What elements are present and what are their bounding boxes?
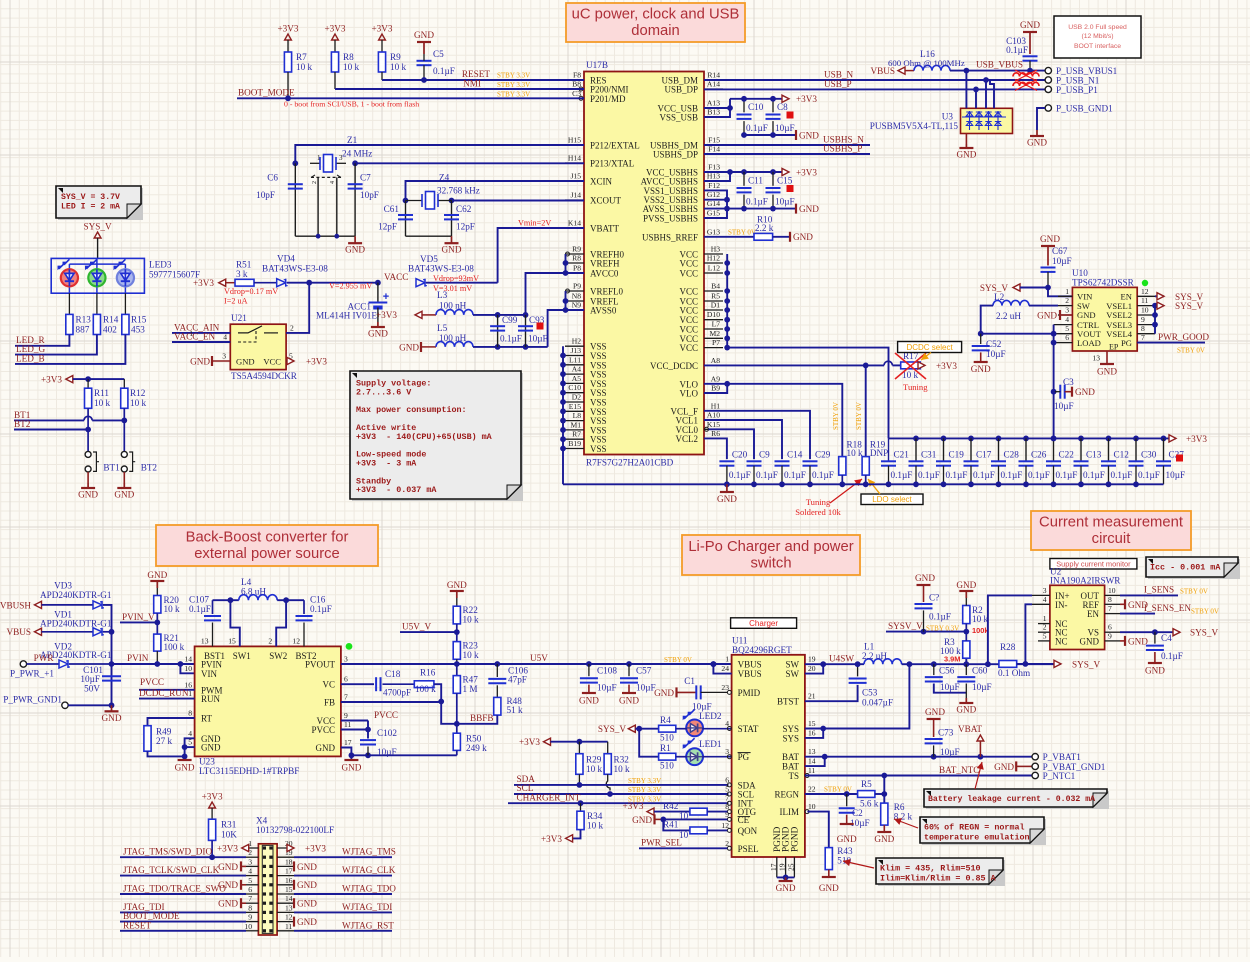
supply +3V3 rail arrow	[1169, 435, 1176, 442]
svg-text:C67: C67	[1052, 246, 1068, 256]
capacitor C102	[367, 730, 369, 739]
svg-text:GND: GND	[399, 342, 419, 352]
wire R34 to +3V3	[573, 830, 581, 839]
svg-text:F15: F15	[708, 136, 720, 145]
wire R48 to BBFB	[457, 715, 498, 724]
svg-text:SW1: SW1	[233, 651, 251, 661]
svg-text:14: 14	[184, 655, 192, 664]
title uC power clock and USB domain	[566, 3, 745, 42]
svg-text:11: 11	[1141, 296, 1149, 305]
svg-text:R9: R9	[572, 245, 581, 254]
capacitor C14	[775, 460, 790, 462]
wire EN SYS_V	[1155, 295, 1164, 297]
svg-text:0.1µF: 0.1µF	[1111, 470, 1133, 480]
inductor L1	[864, 659, 902, 664]
pin B8 P200/NMI	[565, 88, 584, 90]
svg-text:BAT43WS-E3-08: BAT43WS-E3-08	[262, 264, 328, 274]
svg-text:F8: F8	[573, 71, 581, 80]
svg-text:EP: EP	[1109, 343, 1119, 352]
svg-text:STBY 3.3V: STBY 3.3V	[628, 777, 661, 785]
ic U23 LTC3115EDHD	[195, 646, 341, 756]
svg-text:C29: C29	[815, 450, 831, 460]
wire EXTAL net	[295, 145, 584, 163]
wire gnd rail R50 C102	[351, 754, 456, 756]
pin L8 VSS	[565, 420, 584, 422]
wire U21 pin2 to VACC	[286, 283, 309, 333]
erc marker C8	[787, 112, 794, 119]
svg-text:2: 2	[312, 181, 318, 184]
svg-text:I=2 uA: I=2 uA	[224, 297, 248, 306]
svg-text:H15: H15	[568, 136, 581, 145]
svg-text:GND: GND	[915, 573, 935, 583]
wire R1 branch	[639, 729, 658, 757]
svg-text:C12: C12	[1114, 450, 1130, 460]
svg-text:PVCC: PVCC	[311, 725, 335, 735]
svg-text:U10: U10	[1072, 268, 1088, 278]
svg-text:GND: GND	[837, 834, 857, 844]
svg-text:100 nH: 100 nH	[439, 333, 467, 343]
svg-text:24: 24	[721, 664, 729, 673]
gnd EP pin13	[1106, 351, 1108, 364]
pin B19 VSS	[565, 448, 584, 450]
capacitor C10	[743, 99, 745, 113]
erc marker C15	[787, 185, 794, 192]
gnd C5	[423, 42, 425, 54]
gnd R6	[877, 831, 891, 833]
svg-text:LED3: LED3	[149, 260, 172, 270]
capacitor C29	[803, 460, 818, 462]
svg-text:2: 2	[1043, 623, 1047, 632]
svg-text:TS5A4594DCKR: TS5A4594DCKR	[231, 371, 298, 381]
svg-text:L12: L12	[708, 264, 720, 273]
svg-text:10 k: 10 k	[463, 615, 479, 625]
svg-text:C52: C52	[986, 339, 1002, 349]
ic U3 PUSBM5V5X4 TVS array	[961, 108, 1013, 133]
svg-text:STBY 3.3V: STBY 3.3V	[628, 786, 661, 794]
svg-text:10: 10	[808, 802, 816, 811]
svg-text:R22: R22	[463, 605, 479, 615]
svg-text:GND: GND	[442, 245, 462, 255]
svg-text:PVCC: PVCC	[140, 677, 164, 687]
svg-text:C30: C30	[1141, 450, 1157, 460]
svg-text:VBUS: VBUS	[738, 669, 762, 679]
svg-text:10 k: 10 k	[614, 764, 630, 774]
resistor R34	[580, 803, 582, 811]
title Li-Po Charger and power switch	[682, 535, 860, 575]
svg-text:17: 17	[285, 867, 293, 876]
resistor R15	[124, 293, 126, 314]
resistor R16	[414, 681, 434, 688]
svg-text:A13: A13	[707, 99, 720, 108]
capacitor C93	[525, 315, 527, 347]
svg-text:C6: C6	[267, 173, 278, 183]
svg-text:10µF: 10µF	[775, 197, 795, 207]
svg-text:GND: GND	[201, 743, 221, 753]
svg-text:SW: SW	[786, 669, 800, 679]
supply +3V3 R17 arrow	[918, 362, 925, 369]
pin R5 VCC	[704, 300, 723, 302]
svg-text:P_PWR_+1: P_PWR_+1	[10, 668, 54, 678]
led LED3 red element	[61, 269, 78, 286]
pin G13 USBHS_RREF	[704, 236, 723, 238]
svg-text:+3V3: +3V3	[305, 843, 326, 853]
svg-text:P213/XTAL: P213/XTAL	[590, 159, 634, 169]
pin C10 VSS	[565, 392, 584, 394]
svg-text:6: 6	[344, 675, 348, 684]
svg-text:10 k: 10 k	[586, 764, 602, 774]
svg-text:QON: QON	[738, 826, 758, 836]
port SYS_V after shunt	[1054, 660, 1061, 667]
svg-text:VBAT: VBAT	[958, 724, 982, 734]
svg-text:XCOUT: XCOUT	[590, 196, 622, 206]
svg-text:12pF: 12pF	[378, 222, 397, 232]
svg-text:7: 7	[248, 894, 252, 903]
svg-text:4: 4	[188, 729, 192, 738]
pin H15 P212/EXTAL	[565, 144, 584, 146]
capacitor C57	[628, 664, 630, 676]
pin P7 VCC	[704, 347, 723, 349]
wire U5V rail	[341, 663, 732, 665]
svg-text:5.6 k: 5.6 k	[860, 799, 879, 809]
svg-text:510: 510	[660, 733, 674, 743]
note 60% REGN box	[922, 819, 1046, 845]
svg-text:PSEL: PSEL	[738, 844, 759, 854]
resistor R14	[96, 293, 98, 314]
svg-text:VCC: VCC	[679, 269, 698, 279]
svg-text:+3V3 - 3 mA: +3V3 - 3 mA	[356, 459, 417, 469]
svg-text:10pF: 10pF	[360, 190, 379, 200]
svg-text:0.1µF: 0.1µF	[918, 470, 940, 480]
svg-text:TS: TS	[788, 771, 799, 781]
gnd R22	[456, 591, 458, 598]
pin R9 VREFH0	[565, 253, 584, 255]
svg-text:C2: C2	[852, 808, 863, 818]
svg-text:GND: GND	[956, 705, 976, 715]
svg-text:GND: GND	[1097, 367, 1117, 377]
svg-text:temperature emulation: temperature emulation	[924, 832, 1030, 842]
svg-text:10µF: 10µF	[597, 683, 617, 693]
pin M2 VCC	[704, 337, 723, 339]
svg-text:P_VBAT1: P_VBAT1	[1043, 752, 1082, 762]
capacitor C52	[980, 334, 982, 344]
svg-text:13: 13	[1092, 354, 1100, 363]
pin A9 VLO	[704, 383, 723, 385]
wire SYS net	[805, 664, 910, 728]
svg-text:C108: C108	[597, 666, 617, 676]
svg-text:0.1µF: 0.1µF	[189, 604, 211, 614]
erc marker C27	[1176, 455, 1183, 462]
svg-text:10µF: 10µF	[940, 747, 960, 757]
svg-text:AVSS0: AVSS0	[590, 306, 617, 316]
pin D1 VCC	[704, 309, 723, 311]
svg-text:27 k: 27 k	[156, 736, 172, 746]
svg-text:0.1µF: 0.1µF	[891, 470, 913, 480]
pin U10 4 CTRL	[1054, 324, 1073, 326]
svg-text:C57: C57	[636, 666, 652, 676]
svg-text:C5: C5	[433, 49, 444, 59]
svg-text:10: 10	[1141, 306, 1149, 315]
svg-text:10: 10	[184, 664, 192, 673]
svg-text:STBY 3.3V: STBY 3.3V	[497, 72, 530, 80]
resistor R12	[123, 379, 125, 388]
wire VCC to 3V3 rail	[727, 348, 888, 439]
svg-text:GND: GND	[971, 364, 991, 374]
svg-text:USB 2.0 Full speed: USB 2.0 Full speed	[1068, 24, 1127, 31]
svg-text:K15: K15	[707, 420, 720, 429]
pin G12 VSS2_USBHS	[704, 199, 723, 201]
svg-text:STBY 3.3V: STBY 3.3V	[497, 90, 530, 98]
wire BOOT_MODE net	[237, 97, 584, 99]
svg-text:R9: R9	[390, 52, 401, 62]
resistor R1	[659, 753, 676, 760]
svg-text:R8: R8	[572, 254, 581, 263]
pin X4 9 and 12	[246, 921, 258, 923]
svg-text:USBHS_RREF: USBHS_RREF	[642, 232, 698, 242]
svg-text:VC: VC	[322, 680, 335, 690]
svg-text:D10: D10	[707, 310, 720, 319]
svg-text:U21: U21	[231, 313, 247, 323]
wire VBATT net	[498, 228, 584, 283]
gnd P_USB_GND1	[1036, 130, 1038, 136]
svg-text:SYS_V: SYS_V	[1072, 659, 1100, 669]
svg-text:+: +	[383, 291, 389, 303]
pin U2 8 REF	[1105, 603, 1120, 605]
svg-text:C21: C21	[894, 450, 910, 460]
svg-text:R43: R43	[837, 846, 853, 856]
resistor R23	[453, 642, 460, 660]
capacitor C53	[857, 664, 859, 676]
svg-text:C102: C102	[377, 728, 397, 738]
svg-text:USBHS_P: USBHS_P	[823, 144, 862, 154]
capacitor C9	[747, 460, 762, 462]
ic U11 BQ24296RGET	[732, 655, 805, 857]
pin M1 VSS	[565, 429, 584, 431]
svg-text:+3V3: +3V3	[796, 168, 817, 178]
svg-text:GND: GND	[1037, 311, 1057, 321]
svg-text:R32: R32	[614, 755, 630, 765]
pin U10 8 VSEL4	[1137, 333, 1155, 335]
svg-text:+3V3: +3V3	[202, 792, 223, 802]
svg-text:R49: R49	[156, 727, 172, 737]
wire RESET net	[382, 79, 584, 81]
gnd ACC1	[377, 308, 379, 323]
wire USB_P net	[704, 88, 1048, 90]
pin F13 VCC_USBHS	[704, 171, 723, 173]
svg-text:INA190A2IRSWR: INA190A2IRSWR	[1050, 576, 1121, 586]
svg-text:9: 9	[344, 711, 348, 720]
svg-text:GND: GND	[297, 917, 317, 927]
svg-text:STBY 3.3V: STBY 3.3V	[497, 81, 530, 89]
gnd BT1	[87, 483, 89, 488]
svg-text:ILIM: ILIM	[780, 807, 800, 817]
svg-text:P9: P9	[573, 282, 581, 291]
svg-text:C22: C22	[1059, 450, 1075, 460]
resistor R20	[156, 588, 158, 596]
capacitor C26	[1023, 436, 1029, 442]
svg-text:RESET: RESET	[462, 69, 490, 79]
erc marker C93	[537, 323, 544, 330]
svg-text:Vdrop=0.17 mV: Vdrop=0.17 mV	[224, 287, 278, 296]
svg-text:U3: U3	[942, 112, 954, 122]
svg-text:R50: R50	[466, 734, 482, 744]
wire RT to R49	[148, 718, 195, 726]
wire VCC_USB to +3V3	[704, 99, 730, 108]
svg-text:+3V3: +3V3	[936, 361, 957, 371]
svg-text:C3: C3	[1063, 377, 1074, 387]
svg-text:switch: switch	[750, 556, 791, 572]
svg-text:uC power, clock and USB: uC power, clock and USB	[572, 7, 740, 23]
svg-text:5977715607F: 5977715607F	[149, 270, 200, 280]
wire XCOUT net	[452, 200, 585, 202]
svg-text:GND: GND	[619, 695, 639, 705]
node VACC	[375, 280, 381, 286]
resistor R32	[607, 742, 609, 754]
svg-text:J13: J13	[570, 346, 581, 355]
svg-text:STBY 0V: STBY 0V	[1191, 607, 1219, 615]
svg-text:IN-: IN-	[1055, 600, 1068, 610]
svg-text:GND: GND	[717, 494, 737, 504]
svg-text:GND: GND	[447, 580, 467, 590]
wire AVSS rail	[473, 346, 548, 348]
wire VS SYS_V	[1120, 631, 1180, 633]
pin N8 VREFL	[565, 300, 584, 302]
svg-text:0.1µF: 0.1µF	[433, 66, 455, 76]
svg-text:STBY 0V: STBY 0V	[824, 785, 852, 793]
svg-text:10 k: 10 k	[343, 62, 359, 72]
svg-text:10µF: 10µF	[1052, 256, 1072, 266]
resistor R6	[881, 803, 888, 825]
svg-text:C62: C62	[456, 204, 472, 214]
svg-text:0.1µF: 0.1µF	[746, 197, 768, 207]
wire VLO B9 net	[704, 384, 727, 393]
pin K15 VCL0	[704, 428, 723, 430]
svg-text:B9: B9	[711, 384, 720, 393]
port P_USB_N1	[1045, 77, 1051, 83]
gnd C2	[840, 823, 854, 825]
capacitor C?	[915, 603, 933, 605]
svg-text:GND: GND	[190, 357, 210, 367]
svg-text:VCL2: VCL2	[676, 434, 699, 444]
svg-text:0.1µF: 0.1µF	[1028, 470, 1050, 480]
title Back-Boost converter	[156, 525, 378, 566]
svg-text:6: 6	[248, 885, 252, 894]
resistor R11	[87, 379, 89, 388]
supply SYS_V LED3	[94, 232, 101, 238]
gnd C108	[582, 692, 596, 694]
svg-text:GND: GND	[236, 357, 255, 367]
svg-text:C20: C20	[732, 450, 748, 460]
port P_PWR_GND1	[62, 702, 68, 708]
svg-text:Charger: Charger	[749, 619, 778, 628]
svg-text:R8: R8	[343, 52, 354, 62]
svg-text:J15: J15	[570, 172, 581, 181]
wire to VIN	[1048, 288, 1072, 297]
gnd C101	[111, 705, 113, 711]
svg-text:VREFH: VREFH	[590, 259, 620, 269]
svg-text:VCC: VCC	[679, 287, 698, 297]
pin circle P200/NMI	[579, 87, 583, 91]
svg-text:16: 16	[808, 728, 816, 737]
port P_USB_P1	[1045, 86, 1051, 92]
svg-text:H1: H1	[711, 401, 720, 410]
svg-text:GND: GND	[925, 707, 945, 717]
pin circle VCL0 K15	[705, 427, 709, 431]
resistor R49	[144, 726, 151, 752]
svg-text:PVSS_USBHS: PVSS_USBHS	[643, 214, 698, 224]
svg-text:453: 453	[131, 325, 145, 335]
svg-text:10 k: 10 k	[587, 821, 603, 831]
svg-text:PVIN: PVIN	[127, 653, 149, 663]
svg-text:C?: C?	[929, 593, 939, 603]
resistor R18	[839, 457, 846, 476]
gnd BT2	[123, 483, 125, 488]
svg-text:VCC: VCC	[263, 357, 281, 367]
svg-text:STBY 0V: STBY 0V	[664, 656, 692, 664]
wire REGN net	[805, 793, 858, 795]
capacitor C31	[913, 436, 919, 442]
wire USB_VBUS rail	[950, 70, 1048, 72]
svg-text:C15: C15	[777, 176, 793, 186]
svg-text:PG: PG	[1121, 338, 1132, 348]
svg-text:F12: F12	[708, 181, 720, 190]
svg-text:P_USB_N1: P_USB_N1	[1056, 76, 1100, 86]
svg-text:Tuning: Tuning	[903, 382, 928, 392]
gnd C103	[1029, 32, 1031, 54]
svg-text:WJTAG_TDI: WJTAG_TDI	[342, 902, 392, 912]
resistor R4	[659, 725, 676, 732]
pin N9 AVSS0	[565, 309, 584, 311]
pin G15 PVSS_USBHS	[704, 217, 723, 219]
svg-text:WJTAG_TMS: WJTAG_TMS	[342, 847, 396, 857]
svg-text:8: 8	[1141, 324, 1145, 333]
svg-text:GND: GND	[345, 245, 365, 255]
port P_NTC1	[1032, 772, 1038, 778]
supply +3V3 R7	[285, 34, 292, 40]
svg-text:GND: GND	[1075, 387, 1095, 397]
svg-text:STBY 0V: STBY 0V	[832, 402, 840, 430]
svg-text:R7: R7	[572, 430, 581, 439]
svg-text:10µF: 10µF	[1166, 470, 1186, 480]
svg-text:C10: C10	[568, 383, 581, 392]
pin U10 2 SW	[1058, 305, 1072, 307]
resistor R31	[209, 819, 216, 840]
svg-text:L3: L3	[437, 290, 448, 300]
svg-text:C18: C18	[385, 669, 401, 679]
svg-text:4: 4	[223, 333, 227, 342]
svg-text:APD240KDTR-G1: APD240KDTR-G1	[40, 618, 112, 628]
svg-text:13: 13	[285, 903, 293, 912]
svg-text:(12 Mbit/s): (12 Mbit/s)	[1081, 33, 1113, 40]
capacitor C12	[1106, 436, 1112, 442]
pin R14 USB_DM	[704, 79, 723, 81]
pin X4 1 and 20	[246, 847, 258, 849]
svg-text:LED1: LED1	[699, 739, 722, 749]
port P_USB_GND1	[1045, 105, 1051, 111]
svg-text:G12: G12	[707, 190, 720, 199]
svg-text:C53: C53	[862, 688, 878, 698]
svg-text:VD5: VD5	[420, 254, 438, 264]
svg-text:C19: C19	[949, 450, 965, 460]
svg-text:8: 8	[1108, 595, 1112, 604]
svg-text:N8: N8	[572, 292, 581, 301]
gnd U10 pin3	[1059, 310, 1061, 320]
pin F14 USBHS_DP	[704, 153, 723, 155]
svg-text:13: 13	[201, 637, 209, 646]
wire VOUT rail	[981, 333, 1054, 335]
svg-text:C4: C4	[1161, 633, 1172, 643]
svg-text:0.1µF: 0.1µF	[1083, 470, 1105, 480]
svg-text:VCC_DCDC: VCC_DCDC	[650, 361, 698, 371]
